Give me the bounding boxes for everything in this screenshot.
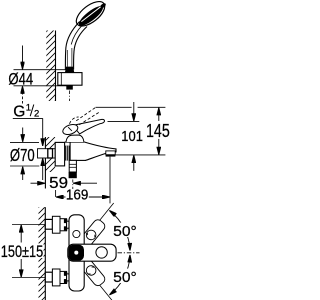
mixer body plan view bbox=[69, 215, 84, 291]
svg-text:101: 101 bbox=[121, 129, 143, 145]
svg-text:50°: 50° bbox=[113, 269, 137, 286]
dimension 150±15 extension lines bbox=[12, 225, 45, 278]
label 50 deg upper bbox=[112, 223, 138, 241]
hand shower handle bbox=[65, 22, 87, 70]
svg-text:169: 169 bbox=[66, 188, 89, 204]
diverter knob bbox=[69, 160, 77, 178]
dimension 169 extension lines bbox=[56, 157, 110, 204]
spout swivel position +50 bbox=[77, 218, 107, 250]
spout hub dark bbox=[68, 245, 84, 261]
wall hatch (hand shower wall) bbox=[46, 31, 55, 102]
swivel arc lower 50 deg bbox=[109, 255, 130, 295]
svg-text:145: 145 bbox=[146, 120, 170, 141]
spout circle bbox=[96, 247, 107, 258]
spout underside bbox=[86, 153, 106, 160]
connector lower bbox=[67, 274, 70, 281]
escutcheon lower bbox=[52, 269, 60, 286]
body screw circle bbox=[73, 230, 80, 237]
svg-text:150±15: 150±15 bbox=[1, 242, 43, 261]
spout centerline bbox=[118, 252, 140, 254]
dimension 59 bbox=[31, 182, 98, 184]
svg-text:Ø70: Ø70 bbox=[10, 145, 35, 165]
swivel centerline -50 bbox=[91, 274, 114, 300]
diverter centerline bbox=[72, 180, 74, 190]
connector upper bbox=[67, 221, 70, 228]
svg-text:1: 1 bbox=[26, 102, 31, 113]
svg-text:50°: 50° bbox=[113, 223, 137, 240]
dimension 145 arrows bbox=[158, 108, 160, 155]
dimension 101 arrows bbox=[133, 102, 135, 171]
dimension Ø70 extension lines bbox=[10, 142, 39, 166]
wall hatch (plan view) bbox=[39, 207, 46, 300]
reference line handle top (101) bbox=[108, 120, 140, 122]
shower bracket holder cone bbox=[65, 67, 74, 73]
union stub lower bbox=[45, 272, 52, 282]
union stub upper bbox=[45, 219, 52, 229]
lever raised position (dashed) bbox=[70, 108, 100, 125]
dimension 150±15 arrows bbox=[20, 225, 22, 277]
shower wall bracket bbox=[58, 73, 82, 86]
label 50 deg lower bbox=[112, 269, 138, 287]
spout plan view bbox=[68, 244, 116, 261]
label G 1/2 bbox=[13, 102, 39, 120]
G1/2 leader underline and arrow to pipe bbox=[13, 118, 43, 180]
label 150±15 bbox=[0, 242, 44, 261]
mixer body side view bbox=[65, 142, 116, 160]
hose nipple bbox=[66, 85, 73, 89]
svg-text:G: G bbox=[13, 103, 25, 120]
dimension Ø70 arrows bbox=[22, 128, 24, 181]
aerator bbox=[106, 151, 115, 155]
wall hatch (side view) bbox=[45, 137, 55, 189]
swivel arc upper 50 deg bbox=[109, 211, 130, 251]
union pipe in wall bbox=[38, 149, 56, 158]
spout top edge bbox=[84, 142, 116, 152]
reference line handle raised top (145) bbox=[96, 106, 166, 108]
dimension 169 arrows bbox=[56, 196, 110, 198]
escutcheon Ø70 bbox=[55, 142, 64, 166]
dimension Ø44 extension lines bbox=[14, 70, 67, 86]
nut lower bbox=[60, 271, 67, 283]
hand shower head bbox=[72, 0, 109, 31]
svg-text:Ø44: Ø44 bbox=[8, 70, 33, 89]
cartridge dome bbox=[66, 135, 84, 142]
reference line spout outlet bbox=[111, 154, 165, 156]
spout swivel position -50 bbox=[77, 255, 107, 287]
union nut bbox=[65, 146, 71, 161]
escutcheon upper bbox=[52, 216, 60, 233]
svg-text:2: 2 bbox=[34, 108, 39, 119]
dimension Ø44 arrows bbox=[22, 46, 24, 104]
bracket centerline bbox=[69, 91, 71, 102]
lever blade bbox=[73, 119, 105, 134]
swivel centerline +50 bbox=[91, 203, 114, 231]
nut upper bbox=[60, 219, 67, 231]
lever knuckle bbox=[61, 123, 79, 137]
